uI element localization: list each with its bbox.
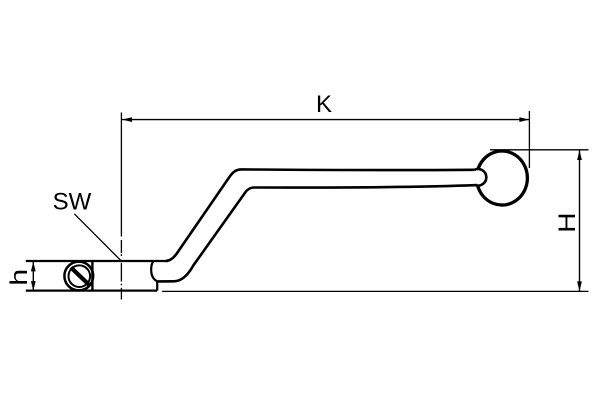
arm end cap at ball	[475, 169, 487, 186]
H bottom extension	[162, 290, 589, 292]
centerline dash-dot	[120, 240, 122, 300]
h dimension line	[32, 262, 34, 291]
K extension right	[528, 111, 530, 168]
svg-text:h: h	[5, 269, 32, 286]
screw boss right edge	[91, 261, 93, 290]
arm upper outline	[166, 169, 475, 261]
arm body fill	[153, 169, 477, 281]
hub bottom edge	[26, 290, 157, 292]
h arrow top	[31, 262, 36, 272]
centerline solid extension	[120, 113, 122, 237]
arm lower outline	[158, 185, 477, 281]
H arrow bottom	[577, 281, 582, 291]
SW leader line	[74, 214, 121, 261]
ball end	[478, 151, 528, 205]
h arrow bottom	[31, 281, 36, 291]
svg-text:K: K	[316, 91, 332, 118]
K arrow right	[519, 117, 529, 122]
H top extension	[490, 149, 589, 151]
H dimension line	[579, 150, 581, 291]
hub right profile	[151, 261, 157, 290]
K arrow left	[122, 117, 132, 122]
svg-text:SW: SW	[53, 188, 92, 215]
svg-text:H: H	[553, 212, 580, 232]
K dimension line	[122, 119, 529, 121]
screw head circle	[69, 265, 91, 287]
H arrow top	[577, 150, 582, 160]
screw outer circle	[64, 262, 93, 291]
screw slot	[71, 268, 90, 286]
hub top edge	[26, 260, 168, 262]
